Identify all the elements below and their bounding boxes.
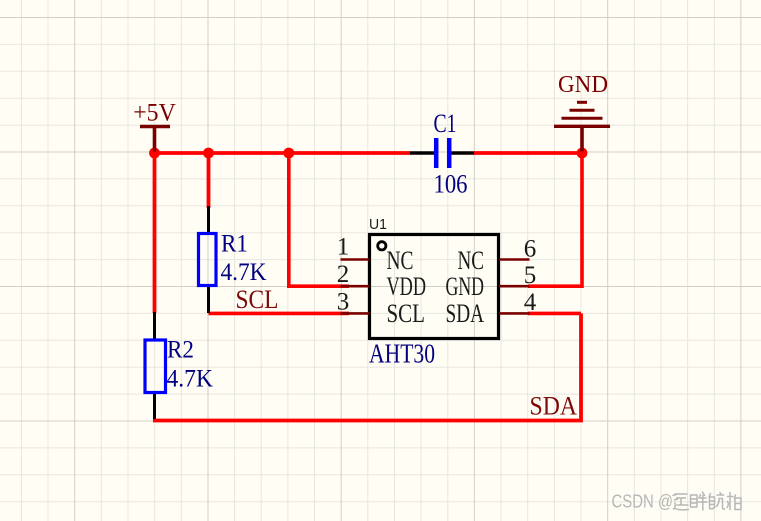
- power +5V symbol: [133, 100, 176, 152]
- pin 5 stub: [499, 285, 530, 288]
- svg-text:2: 2: [337, 261, 350, 288]
- resistor R1: [199, 206, 267, 313]
- wire: bottom SDA horizontal: [153, 313, 581, 420]
- svg-text:SDA: SDA: [530, 392, 578, 421]
- pin 2 stub: [341, 285, 370, 288]
- node: junction dot at VDD branch: [283, 148, 294, 159]
- svg-text:6: 6: [524, 236, 537, 263]
- node: junction dot at GND: [577, 148, 588, 159]
- wire: VDD branch vertical + horizontal into pin 2: [289, 153, 349, 286]
- svg-text:C1: C1: [434, 109, 457, 138]
- svg-text:VDD: VDD: [387, 272, 427, 301]
- pin 1 stub: [341, 258, 370, 261]
- svg-text:NC: NC: [458, 246, 485, 275]
- node: junction dot at +5V: [149, 148, 160, 159]
- pin 6 stub: [499, 258, 530, 261]
- svg-text:U1: U1: [369, 216, 387, 233]
- resistor R2: [145, 312, 213, 419]
- IC U1 AHT30 body: [369, 216, 499, 369]
- watermark CJK glyphs (drawn): [673, 492, 741, 510]
- wire: left vertical from +5V rail down to R2: [153, 153, 157, 313]
- svg-text:106: 106: [434, 170, 468, 199]
- wire: vertical down to R1: [207, 153, 211, 208]
- svg-text:CSDN @: CSDN @: [612, 491, 674, 512]
- svg-text:4.7K: 4.7K: [221, 259, 267, 286]
- wire: pin 4 to bottom SDA rail: [528, 312, 581, 316]
- svg-text:SDA: SDA: [446, 299, 485, 328]
- pin 4 stub: [499, 312, 530, 315]
- svg-text:NC: NC: [387, 246, 414, 275]
- node: junction dot at R1 branch: [203, 148, 214, 159]
- svg-text:SCL: SCL: [236, 285, 279, 314]
- svg-text:4.7K: 4.7K: [167, 366, 214, 393]
- svg-text:4: 4: [524, 289, 537, 316]
- ground GND symbol: [554, 72, 610, 152]
- svg-text:AHT30: AHT30: [369, 339, 435, 369]
- capacitor C1: [410, 109, 474, 199]
- svg-text:+5V: +5V: [133, 100, 176, 127]
- svg-text:1: 1: [337, 234, 350, 261]
- wire: GND vertical from top rail down to pin 5: [528, 153, 582, 286]
- svg-text:GND: GND: [446, 272, 485, 301]
- wire: SCL horizontal from R1 bottom to pin 3: [209, 312, 350, 316]
- svg-text:3: 3: [337, 289, 350, 316]
- svg-text:5: 5: [524, 262, 537, 289]
- svg-text:R1: R1: [221, 231, 248, 258]
- pin 3 stub: [341, 312, 370, 315]
- svg-text:SCL: SCL: [387, 299, 426, 328]
- svg-text:GND: GND: [558, 72, 608, 98]
- wire: top horizontal rail right of C1: [474, 151, 582, 155]
- wire: top horizontal rail left of C1: [155, 151, 411, 155]
- svg-text:R2: R2: [167, 337, 194, 364]
